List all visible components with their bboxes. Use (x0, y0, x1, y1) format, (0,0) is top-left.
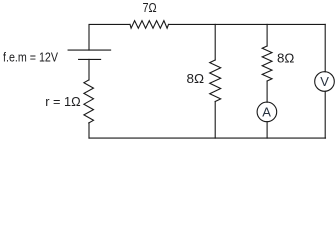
svg-text:7Ω: 7Ω (143, 0, 157, 15)
wire top-right segment (7Ω to top-right corner) (169, 23, 326, 25)
ammeter A1 circle (257, 102, 277, 122)
wire left branch bottom (88, 123, 90, 138)
wire right branch top (corner to voltmeter) (324, 24, 326, 71)
battery B1 positive plate (long) (68, 49, 111, 51)
battery B1 negative plate (short) (79, 58, 101, 60)
svg-text:A: A (262, 105, 271, 120)
wire middle branch bottom (214, 102, 216, 139)
resistor R3 8Ω right zigzag (262, 46, 272, 81)
wire voltmeter to bottom rail (324, 91, 326, 138)
wire bottom rail (89, 137, 326, 139)
resistor R2 8Ω middle zigzag (210, 60, 221, 102)
svg-text:V: V (320, 74, 329, 89)
svg-text:8Ω: 8Ω (277, 50, 295, 65)
wire 8Ω to ammeter (266, 81, 268, 102)
wire top-left segment (battery top to resistor 7Ω) (89, 24, 130, 50)
svg-text:8Ω: 8Ω (187, 71, 205, 86)
resistor r internal resistance zigzag (84, 80, 94, 123)
svg-text:f.e.m = 12V: f.e.m = 12V (3, 49, 58, 64)
wire right-middle branch top (node to 8Ω) (266, 24, 268, 46)
resistor R1 7Ω zigzag (130, 21, 169, 29)
wire ammeter to bottom rail (266, 122, 268, 138)
svg-text:r = 1Ω: r = 1Ω (45, 94, 81, 109)
voltmeter V1 circle (315, 72, 335, 92)
wire battery to internal resistance r (88, 59, 90, 80)
wire middle branch top (node to 8Ω) (214, 24, 216, 60)
